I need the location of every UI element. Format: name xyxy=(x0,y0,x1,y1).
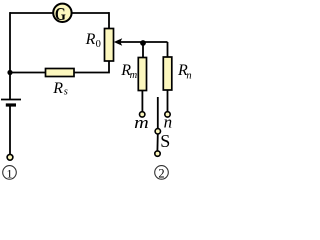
wire R0 bottom to Rs branch xyxy=(10,61,109,73)
terminal circle bottom left xyxy=(7,154,13,160)
port label 1 circled xyxy=(3,166,17,180)
wire to Rn branch xyxy=(167,42,169,58)
svg-text:G: G xyxy=(55,4,66,24)
wire junction to Rm xyxy=(142,43,144,58)
battery B1 short plate xyxy=(6,103,16,106)
svg-text:n: n xyxy=(164,112,173,131)
battery B1 long plate xyxy=(1,99,21,101)
galvanometer U1 circle xyxy=(53,4,71,22)
port label 2 circled xyxy=(155,166,169,180)
switch S terminal bottom xyxy=(155,151,160,156)
resistor Rs xyxy=(46,69,75,77)
svg-text:S: S xyxy=(160,131,170,151)
svg-text:m: m xyxy=(134,113,149,132)
wire top horizontal xyxy=(10,12,109,14)
svg-text:2: 2 xyxy=(158,166,164,180)
svg-text:s: s xyxy=(64,87,68,98)
svg-text:m: m xyxy=(130,70,138,81)
terminal circle n xyxy=(165,112,170,117)
svg-text:0: 0 xyxy=(96,39,101,50)
wiper arrow of R0 xyxy=(117,41,168,43)
svg-text:1: 1 xyxy=(7,166,13,180)
svg-text:R: R xyxy=(85,31,96,48)
resistor R0 (rheostat body) xyxy=(105,29,114,62)
svg-text:R: R xyxy=(52,80,63,97)
switch S blade wire xyxy=(156,134,158,151)
wire right vertical to R0 xyxy=(108,12,110,29)
resistor Rn xyxy=(163,57,172,90)
resistor Rm xyxy=(138,58,146,91)
svg-text:n: n xyxy=(186,70,191,81)
terminal circle m xyxy=(140,112,145,117)
wire battery to terminal 1 xyxy=(9,105,11,155)
wire left vertical xyxy=(9,12,11,99)
wire Rm to terminal m xyxy=(141,91,143,112)
switch S terminal top xyxy=(155,129,160,134)
switch S lead wire xyxy=(157,97,159,129)
wire Rn to terminal n xyxy=(167,90,169,112)
node junction dot on wiper wire xyxy=(140,40,146,46)
node junction dot left (battery / Rs) xyxy=(7,70,12,75)
